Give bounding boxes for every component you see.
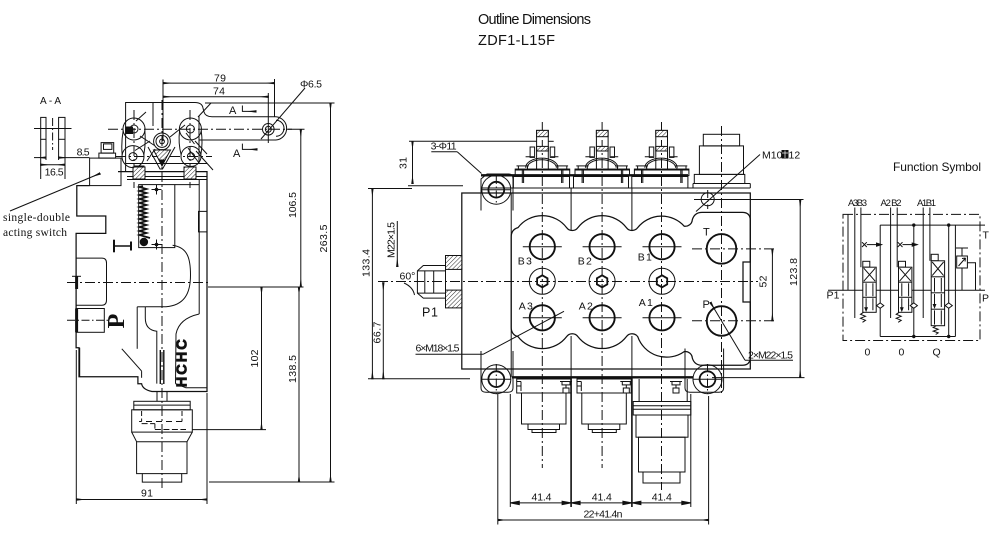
I-beam clevis symbol xyxy=(114,240,131,253)
left view body outline xyxy=(76,172,207,392)
svg-text:22+41.4n: 22+41.4n xyxy=(584,509,623,521)
end plate divider xyxy=(510,193,512,377)
section divider lines xyxy=(571,188,632,507)
svg-text:T: T xyxy=(983,230,990,242)
dimension 8.5 xyxy=(34,146,90,158)
svg-text:41.4: 41.4 xyxy=(592,492,612,504)
label 6xM18x1.5 with leader xyxy=(416,311,565,354)
work port lines group 3 xyxy=(848,208,861,319)
svg-text:B3: B3 xyxy=(518,256,532,268)
bottom edge thick xyxy=(512,376,693,378)
top cap strip xyxy=(481,175,688,188)
T port centerline xyxy=(692,248,777,250)
labels A3B3 A2B2 A1B1 xyxy=(848,198,936,209)
mid plug hole 2 xyxy=(589,268,615,294)
check valve lines xyxy=(914,225,956,336)
mid plug hole 1 xyxy=(649,268,675,294)
svg-text:Outline Dimensions: Outline Dimensions xyxy=(478,12,591,28)
mid plug hole 3 xyxy=(529,268,555,294)
svg-text:P: P xyxy=(104,314,130,329)
spool boot right xyxy=(184,167,196,179)
label M10 depth 12 with leader xyxy=(696,150,800,212)
label Φ6.5 with leader xyxy=(261,79,322,140)
left view lever lower centerline xyxy=(116,156,212,158)
lever end rounded cap xyxy=(276,117,287,140)
svg-text:M10: M10 xyxy=(762,150,783,162)
spool marker bottom xyxy=(152,240,162,250)
port circle A3 xyxy=(523,305,562,330)
cloverleaf face plate xyxy=(511,212,750,365)
body top plate lines xyxy=(126,116,207,180)
mounting ear bottom-left xyxy=(481,351,513,394)
P gallery S-curve xyxy=(145,245,190,306)
svg-text:6×M18×1.5: 6×M18×1.5 xyxy=(416,343,460,355)
dimension 74 xyxy=(163,80,268,142)
svg-text:31: 31 xyxy=(398,157,410,169)
svg-text:A2 B2: A2 B2 xyxy=(881,198,902,209)
svg-text:B1: B1 xyxy=(638,252,652,264)
dimension 263.5 xyxy=(205,103,335,482)
work port lines group 2 xyxy=(880,208,897,337)
svg-text:C: C xyxy=(175,364,191,375)
linkage cross arms xyxy=(135,103,213,170)
svg-text:A: A xyxy=(229,105,237,117)
label 3-Φ11 with leader xyxy=(431,140,482,173)
dimension 91 xyxy=(76,350,207,504)
spool boot left xyxy=(133,167,145,179)
column centerline 2 xyxy=(601,122,603,468)
svg-text:A3: A3 xyxy=(519,301,533,313)
title block xyxy=(478,12,591,49)
svg-text:C: C xyxy=(175,339,191,350)
vertical channel right wall xyxy=(176,314,200,384)
svg-text:106.5: 106.5 xyxy=(287,192,299,218)
column centerline 3 xyxy=(661,122,663,490)
svg-text:Q: Q xyxy=(933,347,941,359)
link pivot bottom-right xyxy=(181,146,201,166)
svg-text:Φ6.5: Φ6.5 xyxy=(300,79,322,91)
port boss lower xyxy=(76,309,104,333)
label single-double acting switch with leader xyxy=(3,174,100,240)
port circle B2 xyxy=(583,234,622,259)
port circle A2 xyxy=(583,305,622,330)
P supply rail xyxy=(828,289,985,291)
left view spool axis left xyxy=(133,110,135,188)
dimension 123.8 xyxy=(712,200,805,378)
left link plate xyxy=(122,131,145,156)
labels O O Q bottom xyxy=(865,347,941,359)
schematic boundary dash-dot box xyxy=(843,214,980,340)
svg-text:B2: B2 xyxy=(578,256,592,268)
dimension 66.7 xyxy=(371,283,383,379)
inlet tower xyxy=(693,134,750,188)
P1 inlet port side xyxy=(417,256,461,308)
dimension 16.5 xyxy=(41,165,65,179)
interior wall left of channel xyxy=(137,307,145,349)
label 60 degrees xyxy=(400,271,416,296)
svg-text:H: H xyxy=(175,377,191,387)
dimension 31 xyxy=(398,141,554,185)
lever top plate and arm xyxy=(126,103,276,172)
svg-text:M22×1.5: M22×1.5 xyxy=(386,222,398,258)
svg-text:79: 79 xyxy=(214,73,226,85)
main relief cartridge middle view xyxy=(633,379,691,483)
left view P port centerline xyxy=(67,282,211,284)
bottom return rail xyxy=(880,335,955,338)
svg-text:T: T xyxy=(703,227,710,239)
valve symbol 2 xyxy=(896,261,917,322)
spool marker top xyxy=(152,185,162,195)
svg-text:Function Symbol: Function Symbol xyxy=(893,160,981,174)
center wedge block xyxy=(148,147,175,169)
svg-text:3-Φ11: 3-Φ11 xyxy=(431,140,457,152)
port row centerline xyxy=(378,281,758,283)
bottom extension line left xyxy=(368,378,470,380)
column centerline 1 xyxy=(541,122,543,468)
svg-text:91: 91 xyxy=(141,488,153,500)
plate pivot bolt xyxy=(126,127,133,134)
svg-text:A1B1: A1B1 xyxy=(917,198,936,209)
inlet column centerline xyxy=(721,126,723,396)
T port circle xyxy=(707,234,737,264)
M10 hole xyxy=(694,190,804,209)
svg-text:123.8: 123.8 xyxy=(788,258,800,286)
svg-text:A3B3: A3B3 xyxy=(848,198,867,209)
spool cover box xyxy=(139,185,175,248)
T return rail xyxy=(880,223,985,226)
left view relief cartridge xyxy=(132,392,193,483)
svg-text:single-double: single-double xyxy=(3,212,70,224)
dimension 22+41.4n xyxy=(498,394,709,525)
switch knob xyxy=(99,143,116,159)
dimension 138.5 xyxy=(208,287,304,482)
port boss upper xyxy=(72,258,107,305)
P port circle xyxy=(707,306,737,336)
svg-text:0: 0 xyxy=(899,347,905,359)
right link plate xyxy=(179,131,202,156)
vertical channel left wall xyxy=(145,307,157,384)
spool bonnet column 1 xyxy=(515,130,570,183)
work port lines group 1 xyxy=(923,208,930,319)
port labels xyxy=(422,227,710,320)
svg-text:A2: A2 xyxy=(579,301,593,313)
link pivot top-left xyxy=(123,118,145,140)
mounting ear bottom-right xyxy=(685,349,724,395)
svg-text:138.5: 138.5 xyxy=(287,355,299,383)
bottom cap column 1 xyxy=(517,379,572,433)
main body block xyxy=(462,193,751,369)
dimension 133.4 xyxy=(361,189,413,379)
svg-text:16.5: 16.5 xyxy=(45,167,64,179)
switch housing xyxy=(90,158,121,186)
detent symbol 1 xyxy=(862,242,882,247)
svg-text:12: 12 xyxy=(789,150,801,162)
letters HCHC on body xyxy=(175,339,191,388)
bottom right step xyxy=(176,384,207,388)
svg-text:60°: 60° xyxy=(400,271,416,283)
box top line to wall xyxy=(175,184,199,186)
body right edge notch xyxy=(199,211,208,232)
svg-text:52: 52 xyxy=(757,275,769,287)
svg-text:ZDF1-L15F: ZDF1-L15F xyxy=(478,33,555,49)
section arrow A upper xyxy=(229,105,256,117)
svg-text:66.7: 66.7 xyxy=(371,321,383,343)
svg-text:74: 74 xyxy=(213,85,225,97)
left view main vertical centerline xyxy=(161,100,163,490)
port block lines bottom-left xyxy=(122,349,142,378)
dimension 79 xyxy=(163,73,275,117)
body inner wall right xyxy=(198,180,200,314)
mounting ear top-left xyxy=(481,174,513,211)
dimension 52 xyxy=(757,249,772,321)
svg-text:8.5: 8.5 xyxy=(77,146,90,158)
svg-text:133.4: 133.4 xyxy=(361,249,373,277)
dimension 102 xyxy=(192,287,266,430)
valve symbol 1 xyxy=(861,261,884,322)
svg-text:P1: P1 xyxy=(827,290,840,302)
svg-text:P: P xyxy=(982,293,989,305)
svg-text:A: A xyxy=(233,148,241,160)
left view lever centerline horizontal xyxy=(108,128,292,130)
port circle B3 xyxy=(523,234,562,259)
svg-text:102: 102 xyxy=(249,349,261,367)
label 2xM22x1.5 with leader xyxy=(711,303,794,362)
port circle A1 xyxy=(643,305,682,330)
section A-A fork slots xyxy=(34,117,72,179)
dimension M22x1.5 leader xyxy=(386,221,398,267)
spool rod lower xyxy=(160,350,164,384)
svg-text:P: P xyxy=(703,299,710,311)
relief valve symbol xyxy=(956,248,976,290)
svg-text:41.4: 41.4 xyxy=(652,492,672,504)
svg-text:2×M22×1.5: 2×M22×1.5 xyxy=(748,350,793,362)
svg-text:A1: A1 xyxy=(639,297,653,309)
section arrow A lower xyxy=(233,144,257,160)
left view spool axis right xyxy=(189,110,191,188)
svg-text:41.4: 41.4 xyxy=(532,492,552,504)
center pivot xyxy=(154,133,171,150)
svg-text:acting switch: acting switch xyxy=(3,227,67,239)
svg-text:H: H xyxy=(175,352,191,362)
lower-left crank mount xyxy=(134,166,144,177)
link pivot top-right xyxy=(179,118,201,140)
left view small port centerline xyxy=(67,319,109,321)
dimension 106.5 xyxy=(286,129,305,287)
detent symbol 2 xyxy=(898,242,918,247)
valve symbol 3 xyxy=(931,254,952,334)
svg-text:P1: P1 xyxy=(422,306,438,320)
lever end pin hole Φ6.5 xyxy=(263,118,275,143)
svg-text:0: 0 xyxy=(865,347,871,359)
P port centerline xyxy=(692,320,777,322)
svg-text:263.5: 263.5 xyxy=(318,224,330,252)
svg-text:A-A: A-A xyxy=(40,96,61,107)
spool spring xyxy=(140,186,151,238)
plate inner line xyxy=(152,103,154,127)
link pivot bottom-left xyxy=(122,146,144,168)
dimension 41.4 x3 xyxy=(510,394,691,507)
bottom lobe inner edge line xyxy=(79,348,81,377)
port circle B1 xyxy=(643,234,682,259)
